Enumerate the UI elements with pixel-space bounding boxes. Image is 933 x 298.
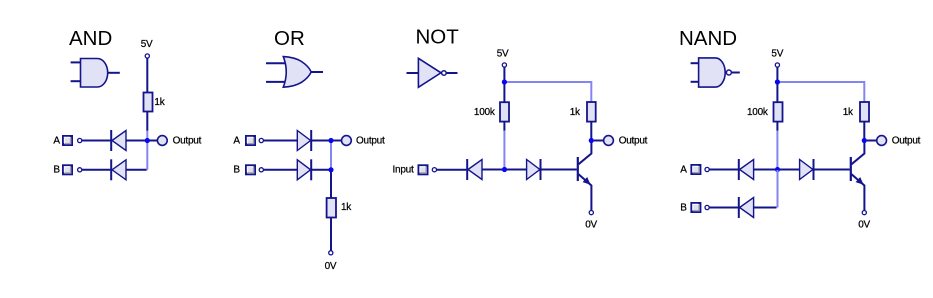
svg-text:NOT: NOT	[416, 25, 460, 48]
svg-text:Input: Input	[393, 164, 414, 175]
svg-text:B: B	[233, 165, 240, 176]
svg-text:A: A	[680, 164, 687, 175]
svg-text:100k: 100k	[747, 107, 769, 118]
svg-text:AND: AND	[69, 27, 112, 50]
svg-text:B: B	[680, 202, 687, 213]
svg-text:5V: 5V	[497, 48, 509, 59]
svg-text:100k: 100k	[474, 107, 496, 118]
svg-text:A: A	[233, 135, 240, 146]
svg-text:0V: 0V	[585, 220, 597, 231]
svg-text:OR: OR	[274, 27, 305, 50]
svg-text:1k: 1k	[341, 202, 352, 213]
svg-text:0V: 0V	[858, 220, 870, 231]
svg-text:5V: 5V	[771, 48, 783, 59]
svg-text:Output: Output	[619, 135, 648, 146]
svg-text:A: A	[53, 135, 60, 146]
svg-text:Output: Output	[892, 135, 921, 146]
svg-text:0V: 0V	[325, 261, 337, 272]
svg-text:B: B	[53, 165, 60, 176]
svg-text:Output: Output	[173, 135, 202, 146]
svg-text:1k: 1k	[154, 97, 165, 108]
svg-text:1k: 1k	[570, 107, 581, 118]
svg-text:5V: 5V	[141, 39, 153, 50]
svg-text:Output: Output	[356, 135, 385, 146]
svg-text:1k: 1k	[843, 107, 854, 118]
svg-text:NAND: NAND	[679, 27, 737, 50]
